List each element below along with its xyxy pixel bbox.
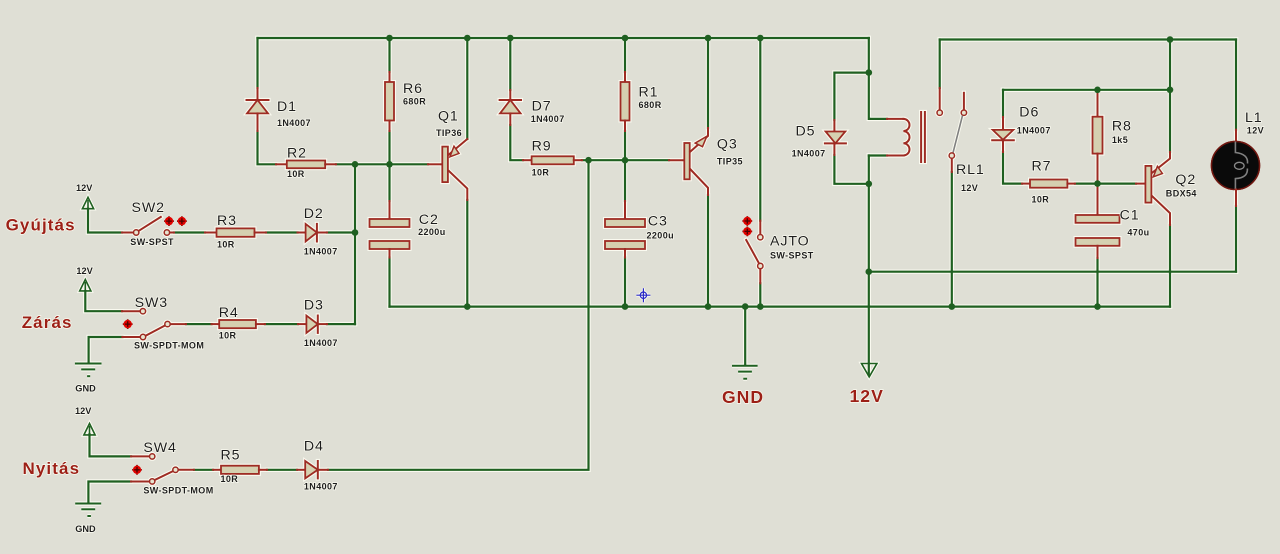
svg-text:1N4007: 1N4007	[304, 482, 338, 492]
svg-text:12V: 12V	[850, 386, 884, 406]
svg-text:SW2: SW2	[132, 200, 165, 216]
svg-text:R6: R6	[403, 81, 423, 97]
svg-text:R3: R3	[217, 213, 237, 229]
svg-text:SW-SPST: SW-SPST	[130, 237, 174, 247]
svg-text:R2: R2	[287, 146, 307, 162]
svg-text:10R: 10R	[219, 330, 237, 340]
svg-text:12V: 12V	[961, 183, 978, 193]
svg-text:R4: R4	[219, 305, 239, 321]
svg-text:D5: D5	[796, 123, 816, 139]
svg-text:L1: L1	[1245, 110, 1263, 126]
svg-text:680R: 680R	[639, 100, 662, 110]
svg-text:Gyújtás: Gyújtás	[6, 216, 76, 235]
svg-text:10R: 10R	[287, 169, 305, 179]
svg-text:10R: 10R	[221, 474, 239, 484]
svg-text:Zárás: Zárás	[22, 313, 73, 332]
svg-text:1k5: 1k5	[1112, 135, 1128, 145]
svg-text:C3: C3	[648, 214, 668, 230]
svg-text:R5: R5	[221, 447, 241, 463]
svg-text:12V: 12V	[76, 266, 93, 276]
svg-text:Q1: Q1	[438, 109, 459, 125]
svg-text:R7: R7	[1032, 158, 1052, 174]
svg-text:2200u: 2200u	[418, 227, 446, 237]
svg-text:Nyitás: Nyitás	[23, 459, 81, 478]
svg-text:10R: 10R	[217, 239, 235, 249]
svg-text:12V: 12V	[75, 406, 92, 416]
svg-text:680R: 680R	[403, 97, 426, 107]
svg-text:BDX54: BDX54	[1166, 188, 1197, 198]
svg-text:RL1: RL1	[956, 162, 985, 178]
svg-text:SW3: SW3	[135, 295, 168, 311]
svg-text:SW-SPDT-MOM: SW-SPDT-MOM	[134, 341, 204, 351]
svg-text:1N4007: 1N4007	[792, 148, 826, 158]
svg-text:12V: 12V	[1247, 125, 1264, 135]
svg-text:GND: GND	[75, 384, 96, 394]
svg-text:Q3: Q3	[717, 137, 738, 153]
svg-text:1N4007: 1N4007	[304, 247, 338, 257]
svg-text:SW-SPDT-MOM: SW-SPDT-MOM	[143, 486, 213, 496]
svg-text:12V: 12V	[76, 183, 93, 193]
svg-text:Q2: Q2	[1175, 172, 1196, 188]
svg-text:AJTO: AJTO	[770, 234, 810, 250]
svg-text:2200u: 2200u	[647, 231, 675, 241]
svg-text:R8: R8	[1112, 119, 1132, 135]
svg-text:GND: GND	[722, 387, 764, 407]
svg-text:10R: 10R	[1032, 195, 1050, 205]
svg-text:1N4007: 1N4007	[531, 114, 565, 124]
svg-text:C1: C1	[1120, 208, 1140, 224]
svg-text:1N4007: 1N4007	[304, 338, 338, 348]
svg-text:TIP36: TIP36	[436, 128, 462, 138]
svg-text:SW4: SW4	[143, 440, 176, 456]
svg-text:1N4007: 1N4007	[1017, 126, 1051, 136]
svg-text:D1: D1	[277, 99, 297, 115]
svg-text:D7: D7	[532, 99, 552, 115]
svg-text:R9: R9	[532, 139, 552, 155]
svg-text:C2: C2	[419, 212, 439, 228]
svg-text:GND: GND	[75, 524, 96, 534]
svg-text:D3: D3	[304, 297, 324, 313]
svg-text:D4: D4	[304, 439, 324, 455]
svg-text:TIP35: TIP35	[717, 156, 743, 166]
svg-text:SW-SPST: SW-SPST	[770, 250, 814, 260]
svg-text:1N4007: 1N4007	[277, 118, 311, 128]
svg-text:D6: D6	[1019, 105, 1039, 121]
svg-text:D2: D2	[304, 206, 324, 222]
svg-text:10R: 10R	[532, 168, 550, 178]
svg-text:470u: 470u	[1127, 228, 1149, 238]
svg-text:R1: R1	[639, 84, 659, 100]
